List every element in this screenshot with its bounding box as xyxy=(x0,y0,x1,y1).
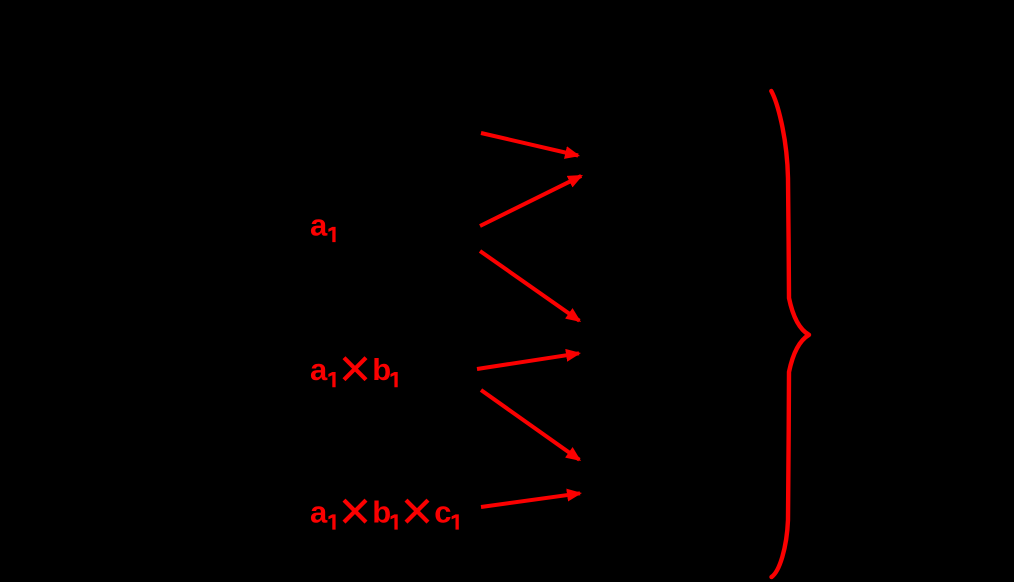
arrow 3 xyxy=(480,251,579,321)
arrow 5 xyxy=(481,390,579,460)
svg-text:c: c xyxy=(434,494,451,529)
arrow 6 xyxy=(481,493,580,507)
arrow 1 xyxy=(481,133,578,156)
label a1 xyxy=(310,207,336,242)
svg-text:a: a xyxy=(310,352,328,387)
svg-text:a: a xyxy=(310,494,328,529)
svg-text:a: a xyxy=(310,207,328,242)
svg-text:b: b xyxy=(372,352,391,387)
right curly brace xyxy=(771,91,809,577)
label a1 times b1 xyxy=(310,352,398,387)
svg-text:b: b xyxy=(372,494,391,529)
label a1 times b1 times c1 xyxy=(310,494,459,529)
arrow 4 xyxy=(477,353,579,369)
arrow 2 xyxy=(480,176,581,226)
